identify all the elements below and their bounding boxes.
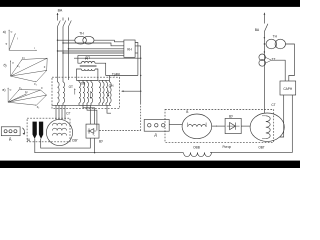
svg-text:ДП: ДП	[85, 56, 90, 60]
svg-text:Ротор: Ротор	[222, 145, 231, 149]
svg-text:СВГ: СВГ	[72, 138, 78, 142]
svg-text:ОВВ: ОВВ	[193, 145, 200, 149]
svg-text:СГ: СГ	[271, 103, 275, 107]
svg-text:ВА: ВА	[58, 9, 63, 13]
svg-text:ОВ: ОВ	[81, 82, 86, 86]
svg-text:в): в)	[3, 88, 6, 92]
svg-text:ТН: ТН	[79, 32, 84, 36]
svg-text:F₁: F₁	[17, 64, 20, 68]
svg-text:ТрФК: ТрФК	[112, 73, 120, 77]
svg-text:а): а)	[3, 30, 6, 34]
svg-text:СГ: СГ	[66, 112, 70, 116]
svg-text:САРН: САРН	[283, 87, 292, 91]
svg-text:Щ: Щ	[27, 138, 30, 142]
svg-text:ОН: ОН	[109, 84, 114, 88]
svg-text:F₂: F₂	[34, 82, 37, 86]
svg-text:ОВГ: ОВГ	[258, 146, 265, 150]
svg-text:ТТ: ТТ	[272, 57, 276, 61]
svg-text:КН: КН	[127, 47, 132, 51]
svg-text:F₁: F₁	[19, 86, 22, 90]
svg-text:ВА: ВА	[255, 28, 260, 32]
svg-text:F₂: F₂	[37, 105, 40, 109]
svg-text:б): б)	[3, 64, 6, 68]
svg-text:ОТ: ОТ	[69, 85, 73, 89]
svg-text:ТН: ТН	[273, 35, 278, 39]
svg-text:В: В	[186, 110, 188, 114]
